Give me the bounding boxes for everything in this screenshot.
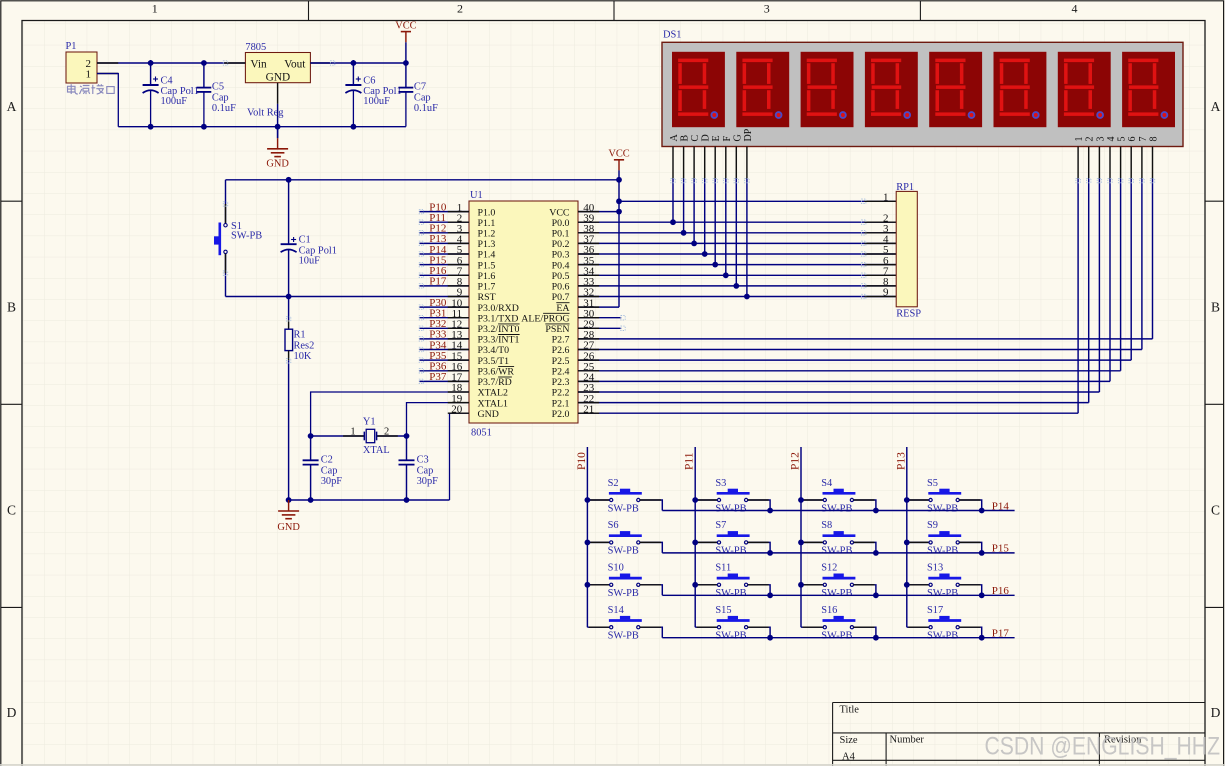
wire crystal ground rail — [289, 499, 450, 501]
svg-text:S15: S15 — [715, 605, 731, 616]
svg-text:P0.3: P0.3 — [552, 250, 570, 261]
switch S5 SW-PB — [904, 478, 982, 515]
junction dots power rails — [148, 60, 409, 129]
svg-text:1: 1 — [86, 68, 92, 80]
wire keypad row 3 — [662, 585, 1014, 598]
svg-text:SW-PB: SW-PB — [231, 231, 262, 242]
capacitor C5 0.1uF — [197, 63, 237, 127]
U1 pin stubs (black) — [448, 212, 599, 414]
wire XTAL1 pin19 — [407, 403, 470, 436]
svg-text:4: 4 — [1106, 137, 1117, 142]
svg-text:ALE/PROG: ALE/PROG — [521, 313, 569, 324]
svg-text:P1.1: P1.1 — [478, 218, 496, 229]
U1 left pin wires pins 10-17 — [419, 307, 469, 381]
crystal Y1 XTAL — [308, 417, 410, 456]
switch S17 SW-PB — [907, 605, 982, 642]
switch S14 SW-PB — [587, 605, 662, 642]
svg-text:P2.2: P2.2 — [552, 388, 570, 399]
svg-text:P1.6: P1.6 — [478, 271, 496, 282]
svg-text:8051: 8051 — [471, 428, 492, 439]
svg-text:SW-PB: SW-PB — [927, 631, 958, 642]
svg-text:P14: P14 — [992, 500, 1010, 512]
svg-text:P3.0/RXD: P3.0/RXD — [478, 303, 519, 314]
svg-text:7: 7 — [1138, 137, 1149, 142]
svg-text:U1: U1 — [470, 190, 483, 201]
DS1 digits — [672, 52, 1175, 127]
svg-text:S6: S6 — [608, 520, 619, 531]
svg-text:DP: DP — [743, 128, 754, 141]
switch S2 SW-PB — [585, 478, 663, 515]
DS1 digit pin labels 1-8 — [1074, 137, 1159, 142]
svg-text:P2.3: P2.3 — [552, 377, 570, 388]
svg-text:P0.4: P0.4 — [552, 260, 570, 271]
switch S6 SW-PB — [585, 520, 663, 557]
svg-text:VCC: VCC — [549, 207, 570, 218]
svg-text:S14: S14 — [608, 605, 625, 616]
switch S9 SW-PB — [904, 520, 982, 557]
svg-text:P2.0: P2.0 — [552, 409, 570, 420]
svg-text:C: C — [690, 135, 701, 142]
svg-text:VCC: VCC — [395, 20, 416, 31]
stub U1 pin29 PSEN — [578, 327, 621, 329]
svg-text:P2.4: P2.4 — [552, 367, 570, 378]
svg-text:D: D — [7, 705, 17, 720]
svg-text:Title: Title — [840, 705, 860, 716]
title block — [833, 703, 1205, 766]
svg-text:S5: S5 — [927, 478, 938, 489]
svg-text:P37: P37 — [429, 371, 447, 383]
svg-text:9: 9 — [883, 287, 889, 299]
svg-text:8: 8 — [1149, 137, 1160, 142]
svg-text:SW-PB: SW-PB — [821, 631, 852, 642]
svg-text:RESP: RESP — [896, 309, 921, 320]
svg-text:30pF: 30pF — [321, 476, 343, 487]
title block labels — [840, 705, 1143, 763]
resistor pack RP1 RESP — [619, 182, 921, 320]
svg-text:RST: RST — [478, 292, 496, 303]
wire keypad row 1 — [662, 500, 1014, 513]
svg-text:2: 2 — [457, 1, 463, 15]
svg-text:GND: GND — [266, 71, 290, 83]
svg-text:30pF: 30pF — [417, 476, 439, 487]
svg-text:D: D — [1211, 705, 1221, 720]
svg-text:C5: C5 — [212, 82, 224, 93]
svg-text:D: D — [701, 134, 712, 141]
svg-text:C3: C3 — [417, 455, 429, 466]
svg-text:SW-PB: SW-PB — [715, 588, 746, 599]
switch S10 SW-PB — [585, 563, 663, 600]
U1 pin names and numbers — [451, 202, 595, 420]
wires U1 P2.7-P2.0 to display pins 8-1 — [578, 339, 1153, 413]
capacitor C3 30pF — [399, 436, 439, 500]
switch S1 SW-PB — [214, 180, 262, 297]
svg-text:P0.2: P0.2 — [552, 239, 570, 250]
svg-text:SW-PB: SW-PB — [608, 631, 639, 642]
regulator 7805 — [245, 42, 310, 83]
keypad column lines P10-P13 — [576, 447, 907, 627]
svg-text:VCC: VCC — [608, 149, 629, 160]
resistor R1 10K — [285, 297, 314, 501]
svg-text:P13: P13 — [895, 452, 907, 470]
wire VCC rail to reset circuit — [226, 179, 620, 181]
wires DS1 digit pins down to P2 bus — [1078, 179, 1152, 414]
wire keypad row 4 — [662, 628, 1014, 641]
switch S12 SW-PB — [798, 563, 876, 600]
svg-text:P1.7: P1.7 — [478, 282, 496, 293]
svg-text:SW-PB: SW-PB — [608, 588, 639, 599]
svg-text:A4: A4 — [842, 752, 856, 763]
DS1 segment pin labels A-DP — [669, 128, 754, 141]
connector P1 — [66, 41, 98, 83]
svg-text:B: B — [1211, 300, 1220, 315]
svg-text:GND: GND — [277, 522, 300, 533]
capacitor C7 0.1uF — [399, 63, 439, 127]
svg-text:Cap: Cap — [321, 465, 338, 476]
svg-text:P3.6/WR: P3.6/WR — [478, 367, 515, 378]
svg-text:S8: S8 — [821, 520, 832, 531]
svg-text:A: A — [7, 99, 17, 114]
switch S15 SW-PB — [695, 605, 770, 642]
svg-text:PSEN: PSEN — [545, 324, 569, 335]
svg-text:S3: S3 — [715, 478, 726, 489]
svg-text:SW-PB: SW-PB — [821, 546, 852, 557]
svg-text:3: 3 — [764, 1, 770, 15]
svg-text:GND: GND — [266, 158, 289, 169]
wire VCC vertical to EA — [618, 170, 620, 307]
svg-text:5: 5 — [1117, 137, 1128, 142]
svg-text:SW-PB: SW-PB — [821, 503, 852, 514]
svg-text:P3.4/T0: P3.4/T0 — [478, 345, 510, 356]
power port VCC (above U1) — [608, 149, 629, 171]
wires DS1 segment pins down to P0 bus — [670, 179, 750, 300]
svg-text:C7: C7 — [414, 82, 426, 93]
svg-text:SW-PB: SW-PB — [927, 503, 958, 514]
svg-text:Vin: Vin — [250, 58, 267, 70]
svg-text:B: B — [7, 300, 16, 315]
svg-text:P0.1: P0.1 — [552, 229, 570, 240]
U1 left pin wires pins 1-8 — [419, 212, 469, 286]
svg-text:P0.5: P0.5 — [552, 271, 570, 282]
svg-text:C2: C2 — [321, 455, 333, 466]
switch S7 SW-PB — [692, 520, 770, 557]
svg-text:SW-PB: SW-PB — [715, 503, 746, 514]
wire P1 pin2 / top rail to 7805 Vin — [97, 62, 245, 64]
svg-text:C4: C4 — [161, 75, 174, 86]
wire GND pin20 — [450, 413, 470, 500]
svg-text:S4: S4 — [821, 478, 833, 489]
svg-text:1: 1 — [1074, 137, 1085, 142]
switch S8 SW-PB — [798, 520, 876, 557]
svg-text:F: F — [722, 136, 733, 142]
svg-text:DS1: DS1 — [663, 29, 681, 40]
svg-text:P1.2: P1.2 — [478, 229, 496, 240]
svg-text:P3.2/INT0: P3.2/INT0 — [478, 324, 520, 335]
svg-text:SW-PB: SW-PB — [608, 546, 639, 557]
svg-text:SW-PB: SW-PB — [715, 546, 746, 557]
svg-text:P3.3/INT1: P3.3/INT1 — [478, 335, 520, 346]
wire U1 pin31 EA to VCC — [578, 306, 619, 308]
svg-text:0.1uF: 0.1uF — [212, 103, 236, 114]
svg-text:P1.0: P1.0 — [478, 207, 496, 218]
svg-text:S2: S2 — [608, 478, 619, 489]
svg-text:Y1: Y1 — [363, 417, 376, 428]
svg-text:Number: Number — [890, 735, 925, 746]
pin hotspot marks — [223, 61, 1154, 384]
wire reset rail to RST pin — [226, 296, 470, 298]
display DS1 (8-digit 7-seg) — [662, 29, 1183, 146]
svg-text:XTAL1: XTAL1 — [478, 398, 509, 409]
svg-text:Size: Size — [840, 735, 858, 746]
svg-text:10K: 10K — [294, 351, 312, 362]
svg-text:SW-PB: SW-PB — [715, 631, 746, 642]
svg-text:SW-PB: SW-PB — [927, 546, 958, 557]
svg-text:C1: C1 — [299, 235, 311, 246]
ground symbol below 7805 — [266, 149, 289, 170]
svg-text:EA: EA — [556, 303, 570, 314]
svg-text:P3.5/T1: P3.5/T1 — [478, 356, 510, 367]
svg-text:P2.5: P2.5 — [552, 356, 570, 367]
svg-text:6: 6 — [1127, 137, 1138, 142]
svg-text:Res2: Res2 — [294, 341, 315, 352]
svg-text:SW-PB: SW-PB — [927, 588, 958, 599]
bottom GND rail of power section — [118, 126, 406, 128]
svg-text:2: 2 — [1085, 137, 1096, 142]
svg-text:CSDN @ENGLISH_HHZ: CSDN @ENGLISH_HHZ — [985, 733, 1221, 761]
svg-text:XTAL2: XTAL2 — [478, 388, 509, 399]
svg-text:G: G — [732, 134, 743, 141]
switch S13 SW-PB — [904, 563, 982, 600]
svg-text:S9: S9 — [927, 520, 938, 531]
bottom sheet edge — [0, 764, 1225, 766]
svg-text:GND: GND — [478, 409, 499, 420]
svg-text:R1: R1 — [294, 329, 306, 340]
svg-text:B: B — [680, 135, 691, 142]
svg-text:P17: P17 — [429, 276, 447, 288]
wire RP1 pin1 to VCC — [619, 200, 896, 202]
switch S3 SW-PB — [692, 478, 770, 515]
svg-text:P2.7: P2.7 — [552, 335, 570, 346]
svg-text:S16: S16 — [821, 605, 837, 616]
ground symbol (crystal/reset) — [277, 500, 300, 533]
DS1 pin stubs — [673, 147, 1153, 179]
U1 pin name overlines — [498, 303, 569, 377]
wire 7805 Vout to VCC corner — [310, 62, 406, 64]
stub U1 pin30 ALE/PROG — [578, 317, 621, 319]
wire keypad row 2 — [662, 543, 1014, 556]
svg-text:Cap: Cap — [417, 465, 434, 476]
svg-text:1: 1 — [152, 1, 158, 15]
svg-text:7805: 7805 — [245, 42, 266, 53]
svg-text:XTAL: XTAL — [363, 445, 390, 456]
svg-text:P2.6: P2.6 — [552, 345, 570, 356]
wires U1 P0.0-P0.7 to RP1 pins 2-9 — [578, 222, 896, 296]
svg-text:SW-PB: SW-PB — [821, 588, 852, 599]
power port VCC (top left) — [395, 20, 416, 63]
wire 7805 GND pin down — [277, 83, 279, 104]
svg-text:P1.3: P1.3 — [478, 239, 496, 250]
svg-text:2: 2 — [384, 426, 389, 437]
svg-text:P16: P16 — [992, 585, 1010, 597]
svg-text:P17: P17 — [992, 628, 1010, 640]
switch S11 SW-PB — [692, 563, 770, 600]
svg-text:P2.1: P2.1 — [552, 398, 570, 409]
svg-text:Cap: Cap — [212, 92, 229, 103]
svg-text:C: C — [1211, 503, 1220, 518]
svg-text:P11: P11 — [684, 452, 696, 470]
capacitor C4 100uF — [143, 60, 199, 126]
svg-text:S7: S7 — [715, 520, 726, 531]
switch S4 SW-PB — [798, 478, 876, 515]
svg-text:1: 1 — [350, 426, 355, 437]
svg-text:P1: P1 — [66, 41, 77, 52]
svg-text:P12: P12 — [790, 452, 802, 470]
net labels P10-P17 — [429, 201, 447, 287]
svg-text:0.1uF: 0.1uF — [414, 103, 438, 114]
svg-text:10uF: 10uF — [299, 255, 321, 266]
svg-text:P0.6: P0.6 — [552, 282, 570, 293]
svg-text:Vout: Vout — [284, 58, 306, 70]
svg-text:S10: S10 — [608, 563, 624, 574]
svg-text:S12: S12 — [821, 563, 837, 574]
wire XTAL2 pin18 — [311, 392, 469, 436]
svg-text:3: 3 — [1095, 137, 1106, 142]
svg-text:P3.7/RD: P3.7/RD — [478, 377, 512, 388]
svg-text:E: E — [711, 135, 722, 141]
svg-text:P10: P10 — [576, 452, 588, 470]
svg-text:A: A — [1211, 99, 1221, 114]
IC U1 8051 — [469, 190, 578, 439]
svg-text:4: 4 — [1072, 1, 1078, 15]
svg-text:P1.5: P1.5 — [478, 260, 496, 271]
svg-text:1: 1 — [883, 192, 889, 204]
svg-text:P3.1/TXD: P3.1/TXD — [478, 313, 519, 324]
wire P1 pin1 down to bottom rail — [97, 74, 118, 127]
svg-text:S13: S13 — [927, 563, 943, 574]
svg-text:P0.7: P0.7 — [552, 292, 570, 303]
svg-text:100uF: 100uF — [161, 96, 188, 107]
svg-text:100uF: 100uF — [363, 96, 390, 107]
svg-text:S11: S11 — [715, 563, 731, 574]
svg-text:P15: P15 — [992, 543, 1010, 555]
svg-text:P0.0: P0.0 — [552, 218, 570, 229]
capacitor C1 10uF — [281, 180, 337, 297]
capacitor C6 100uF — [345, 60, 401, 126]
net labels P30-P37 — [429, 297, 447, 383]
svg-text:C: C — [7, 503, 16, 518]
wire U1 pin40 VCC — [578, 211, 619, 213]
label 电源接口 (hand-drawn CJK) — [68, 84, 115, 94]
switch S16 SW-PB — [801, 605, 876, 642]
svg-text:A: A — [669, 134, 680, 142]
svg-text:S17: S17 — [927, 605, 943, 616]
capacitor C2 30pF — [303, 436, 343, 500]
svg-text:C6: C6 — [363, 75, 375, 86]
svg-text:RP1: RP1 — [896, 182, 914, 193]
svg-text:P1.4: P1.4 — [478, 250, 496, 261]
svg-text:Cap: Cap — [414, 92, 431, 103]
svg-text:SW-PB: SW-PB — [608, 503, 639, 514]
